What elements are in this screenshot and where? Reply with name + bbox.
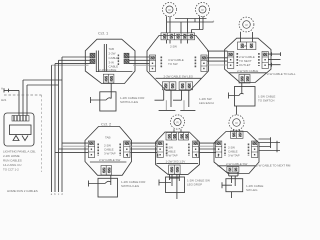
svg-text:R: R <box>245 23 248 27</box>
svg-text:OUTLET: OUTLET <box>239 63 251 67</box>
svg-text:3-W TAP: 3-W TAP <box>104 152 116 156</box>
svg-text:2-W CABLE SW: 2-W CABLE SW <box>226 162 247 166</box>
svg-text:2-2W HOME: 2-2W HOME <box>3 154 20 158</box>
svg-text:TAB: TAB <box>109 47 115 51</box>
svg-text:CABLE: CABLE <box>109 56 119 60</box>
svg-text:3-W TAP: 3-W TAP <box>228 154 240 158</box>
svg-text:LEG DROP: LEG DROP <box>187 183 202 187</box>
svg-text:R: R <box>235 121 238 125</box>
svg-text:2-2W: 2-2W <box>109 52 116 56</box>
svg-text:2-2W CABLE: 2-2W CABLE <box>99 68 116 72</box>
svg-text:RUN CABLES: RUN CABLES <box>3 159 22 163</box>
svg-text:H21: H21 <box>1 98 7 102</box>
svg-text:Cct. 2: Cct. 2 <box>101 122 112 127</box>
svg-text:SW LEG: SW LEG <box>246 188 258 192</box>
svg-text:b: b <box>54 192 56 196</box>
svg-text:2-W SW CABLE: 2-W SW CABLE <box>237 69 258 73</box>
svg-text:c: c <box>58 193 60 196</box>
svg-text:TAB: TAB <box>241 44 247 48</box>
svg-text:1-2W 3X3 1.5V: 1-2W 3X3 1.5V <box>166 160 186 164</box>
svg-text:a: a <box>51 193 53 196</box>
svg-text:TAB: TAB <box>105 136 111 140</box>
svg-text:2-W CABLE SW: 2-W CABLE SW <box>99 158 120 162</box>
svg-text:R: R <box>168 8 171 12</box>
svg-text:+: + <box>213 20 215 24</box>
svg-text:TO CCT 1-2: TO CCT 1-2 <box>3 168 19 172</box>
svg-text:TO SWITCH: TO SWITCH <box>258 99 274 103</box>
svg-text:d: d <box>61 192 63 196</box>
svg-text:LIGHTING PANEL A CBL: LIGHTING PANEL A CBL <box>3 150 36 154</box>
svg-text:SWITCH LEG: SWITCH LEG <box>120 100 139 104</box>
svg-text:LEG EACH: LEG EACH <box>199 101 214 105</box>
svg-text:TO SW: TO SW <box>168 62 178 66</box>
svg-text:Cct. 1: Cct. 1 <box>98 31 109 36</box>
svg-text:2-W CABLE TO NEXT RM: 2-W CABLE TO NEXT RM <box>256 163 291 167</box>
svg-text:2-W CABLE TO HALL: 2-W CABLE TO HALL <box>267 72 296 76</box>
svg-text:R: R <box>201 8 204 12</box>
svg-text:A: A <box>1 87 3 91</box>
svg-text:R: R <box>176 120 179 124</box>
svg-text:SWITCH LEG: SWITCH LEG <box>121 184 140 188</box>
svg-text:2-2W: 2-2W <box>170 45 177 49</box>
svg-text:HOME RUN 2 CABLES: HOME RUN 2 CABLES <box>7 189 38 193</box>
svg-text:3-W TAP: 3-W TAP <box>166 154 178 158</box>
svg-text:2-2W CABLE SW LEG: 2-2W CABLE SW LEG <box>164 74 194 78</box>
svg-text:14-2 AWG CU: 14-2 AWG CU <box>3 163 21 167</box>
